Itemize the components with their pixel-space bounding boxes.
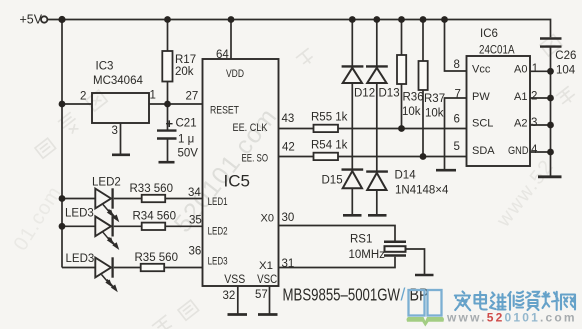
crystal RS1 top plate	[384, 240, 406, 243]
svg-text:6: 6	[454, 114, 460, 126]
wire R35 to pin36	[164, 267, 202, 269]
svg-text:10k: 10k	[425, 108, 444, 120]
svg-text:LED2: LED2	[92, 177, 121, 189]
svg-text:X0: X0	[261, 213, 275, 225]
svg-text:5: 5	[454, 141, 460, 153]
ground D14	[368, 214, 387, 217]
LED LED2 symbol	[95, 189, 111, 209]
ground D15	[343, 214, 362, 217]
svg-text:IC6: IC6	[480, 28, 498, 40]
wire D12 to D15	[351, 83, 353, 169]
svg-text:A1: A1	[514, 91, 527, 103]
svg-text:C26: C26	[555, 50, 576, 62]
svg-text:R34 560: R34 560	[133, 211, 176, 223]
svg-text:R54 1k: R54 1k	[311, 140, 348, 152]
wire PW pin7 to ground	[445, 98, 467, 169]
ground IC6	[538, 175, 562, 178]
svg-text:50V: 50V	[178, 148, 199, 160]
svg-text:D12: D12	[354, 88, 375, 100]
svg-text:D15: D15	[322, 175, 343, 187]
svg-text:A2: A2	[514, 118, 527, 130]
svg-text:20k: 20k	[175, 66, 194, 78]
diode D15	[342, 168, 364, 170]
svg-text:VDD: VDD	[226, 68, 244, 80]
ground PW	[436, 169, 456, 172]
svg-text:IC3: IC3	[96, 61, 114, 73]
wire IC3 pin1 to reset node	[149, 103, 203, 105]
logo book icon right page	[428, 290, 442, 316]
wire D15 to ground	[351, 188, 353, 214]
svg-text:30: 30	[282, 212, 295, 224]
svg-text:/: /	[401, 285, 406, 305]
svg-text:D14: D14	[395, 170, 417, 182]
wire D13 to D14	[376, 83, 378, 171]
svg-text:2: 2	[531, 91, 537, 103]
svg-text:10k: 10k	[402, 106, 421, 118]
ground C21	[159, 161, 175, 164]
LED row1: wire	[62, 198, 95, 200]
wire IC3 pin3	[120, 123, 122, 155]
resistor R17	[167, 20, 169, 52]
svg-text:SDA: SDA	[472, 145, 495, 157]
logo	[407, 290, 577, 327]
resistor R35	[141, 264, 165, 271]
svg-text:LED3: LED3	[65, 208, 94, 220]
svg-text:R33 560: R33 560	[130, 183, 173, 195]
wire EE.CLK pin43	[279, 128, 314, 130]
diode D13	[366, 65, 388, 67]
svg-text:MBS9855–5001GW: MBS9855–5001GW	[283, 285, 401, 305]
wire C26 to ground rail	[550, 47, 552, 176]
wire +5V top rail	[48, 20, 551, 38]
crystal RS1 body	[385, 246, 406, 252]
logo text 家电维修资料网 (stylized)	[455, 292, 575, 311]
resistor R54	[314, 153, 339, 160]
svg-text:57: 57	[255, 289, 268, 301]
wire left vertical bus	[61, 20, 63, 268]
svg-text:D13: D13	[379, 88, 400, 100]
svg-text:104: 104	[556, 64, 576, 76]
svg-text:1: 1	[150, 90, 156, 102]
svg-text:IC5: IC5	[224, 172, 250, 191]
svg-text:LED3: LED3	[208, 255, 228, 267]
resistor R55	[314, 125, 339, 132]
svg-text:43: 43	[282, 113, 295, 125]
wire A2 pin3	[530, 124, 551, 126]
wire R55 to SCL	[338, 128, 467, 130]
svg-text:EE. CLK: EE. CLK	[233, 122, 269, 134]
svg-text:SCL: SCL	[472, 118, 493, 130]
svg-text:10MHz: 10MHz	[349, 249, 386, 261]
wire X1 pin31	[279, 257, 396, 268]
diode D14	[366, 170, 388, 172]
resistor R33	[142, 195, 166, 202]
svg-text:LED3: LED3	[66, 253, 95, 265]
svg-text:64: 64	[216, 49, 229, 61]
wire D12 column	[351, 20, 353, 66]
wire LED row3 to R35	[114, 267, 141, 269]
svg-text:MC34064: MC34064	[93, 75, 143, 87]
wire A0 pin1	[530, 70, 551, 72]
LED LED3 symbol row3	[95, 258, 111, 278]
svg-text:+: +	[166, 116, 174, 131]
svg-text:LED2: LED2	[208, 226, 228, 238]
svg-text:36: 36	[189, 246, 202, 258]
svg-text:R36: R36	[403, 92, 424, 104]
svg-text:7: 7	[455, 89, 461, 101]
svg-text:C21: C21	[176, 118, 197, 130]
logo book icon green base	[407, 317, 445, 327]
wire D13 column	[376, 20, 378, 66]
svg-text:8: 8	[454, 59, 460, 71]
svg-text:A0: A0	[514, 64, 527, 76]
svg-text:31: 31	[282, 258, 295, 270]
IC6 box 24C01A	[467, 56, 531, 166]
svg-text:35: 35	[189, 215, 202, 227]
LED row2: wire	[62, 225, 95, 227]
ground RS1	[415, 274, 434, 277]
svg-text:VSC: VSC	[257, 274, 277, 286]
IC5 box	[203, 59, 279, 286]
svg-text:GND: GND	[508, 145, 529, 157]
svg-text:www.520101.com: www.520101.com	[446, 311, 577, 325]
wire VDD pin64	[230, 20, 232, 60]
resistor R34	[142, 223, 166, 230]
wire GND pin4	[530, 151, 551, 153]
svg-text:EE. SO: EE. SO	[242, 152, 269, 164]
svg-text:RESET: RESET	[210, 105, 239, 117]
LED LED3 symbol row2	[95, 216, 111, 236]
svg-text:LED1: LED1	[208, 196, 228, 208]
wire EE.SO pin42	[279, 156, 314, 158]
wire R34 to pin35	[165, 225, 202, 227]
svg-text:1 μ: 1 μ	[178, 134, 194, 146]
resistor R37	[422, 20, 424, 62]
wire IC3 pin2	[62, 103, 92, 105]
wire R54 to SDA	[338, 156, 467, 158]
node +5V terminal	[41, 16, 47, 22]
svg-text:4: 4	[531, 144, 538, 156]
svg-text:R37: R37	[424, 93, 445, 105]
svg-text:X1: X1	[259, 260, 273, 272]
wire D14 to ground	[376, 190, 378, 214]
svg-text:3: 3	[112, 125, 118, 137]
diode D12	[342, 65, 364, 67]
svg-text:32: 32	[223, 290, 236, 302]
wire LED row3 stub	[62, 267, 95, 269]
crystal RS1 bottom plate	[384, 254, 406, 257]
ground IC3 pin3	[112, 154, 130, 157]
svg-text:+5V: +5V	[20, 13, 43, 27]
svg-text:3: 3	[531, 117, 537, 129]
svg-text:42: 42	[282, 142, 295, 154]
svg-text:PW: PW	[472, 91, 490, 103]
ground VSS	[228, 313, 248, 316]
svg-text:24C01A: 24C01A	[479, 44, 515, 56]
svg-text:2: 2	[80, 91, 86, 103]
svg-text:1: 1	[532, 63, 538, 75]
svg-text:RS1: RS1	[350, 234, 372, 246]
IC3 box MC34064	[92, 93, 149, 123]
svg-text:34: 34	[188, 187, 201, 199]
capacitor C26	[540, 37, 562, 39]
svg-text:R55 1k: R55 1k	[311, 112, 348, 124]
wire VSC pin57	[269, 286, 271, 314]
wire X0 pin30	[279, 226, 396, 241]
wire LED row2 to R34	[114, 225, 142, 227]
wire Vcc pin8	[445, 20, 467, 72]
wire RS1 center to ground	[406, 249, 425, 274]
wire LED2 to R33	[114, 198, 142, 200]
wire VSS pin32	[237, 286, 239, 314]
wire R33 to pin34	[165, 198, 202, 200]
svg-text:27: 27	[186, 91, 199, 103]
svg-text:R35 560: R35 560	[135, 252, 178, 264]
svg-text:1N4148×4: 1N4148×4	[395, 185, 449, 197]
logo book icon left page	[409, 290, 425, 316]
capacitor C21 electrolytic	[167, 104, 169, 130]
ground VSC	[258, 313, 278, 316]
wire A1 pin2	[530, 97, 551, 99]
svg-text:R17: R17	[175, 54, 196, 66]
svg-text:VSS: VSS	[224, 274, 245, 286]
svg-text:Vcc: Vcc	[472, 64, 491, 76]
resistor R36	[401, 20, 403, 56]
